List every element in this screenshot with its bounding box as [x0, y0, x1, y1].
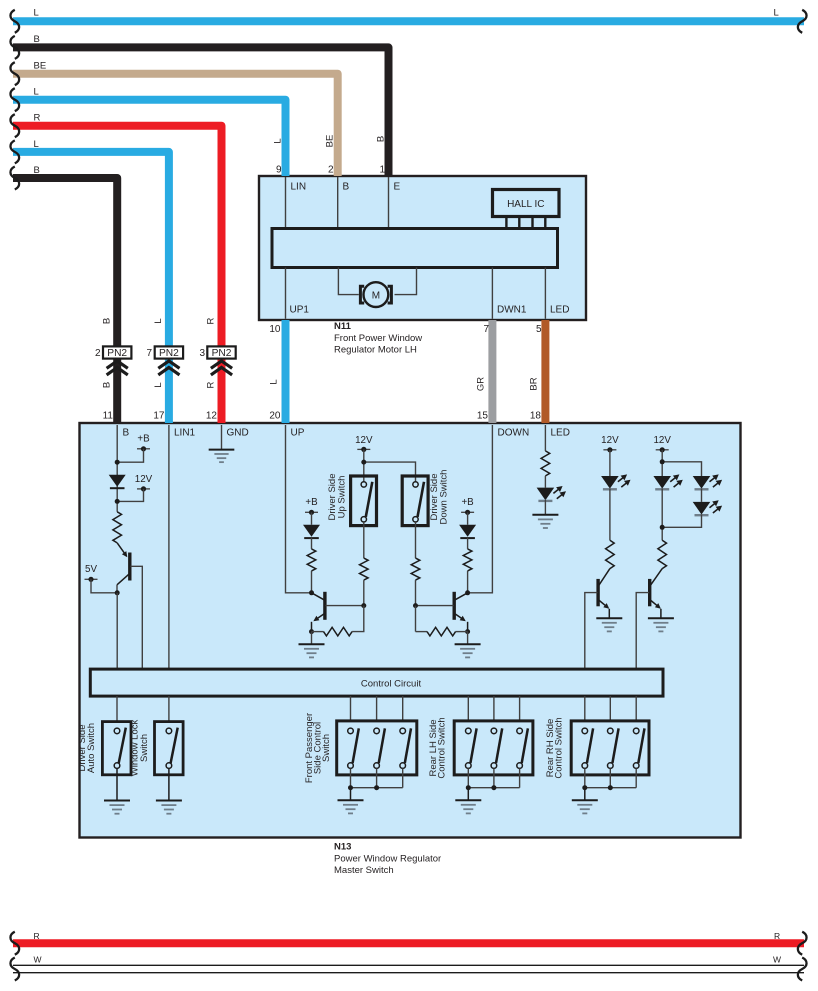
diode D3 [459, 512, 476, 538]
label S6 Rear LH Side Control Switch [428, 717, 448, 778]
node Q2 emitter junction [309, 629, 314, 634]
transistor Q1 [117, 543, 130, 585]
svg-text:12V: 12V [135, 474, 153, 485]
node B pin line [337, 177, 339, 229]
svg-text:B: B [102, 382, 113, 388]
svg-text:UP1: UP1 [290, 305, 310, 316]
pin 12 of N13 [206, 411, 218, 422]
node LIN pin line [285, 177, 287, 229]
svg-text:BR: BR [529, 377, 540, 390]
wire BE to N11 pin 2 B [10, 61, 337, 177]
ground (Q2) [299, 632, 325, 658]
pin 5 of N11 [536, 324, 542, 335]
wire to motor left [338, 268, 358, 295]
wire label BE [325, 135, 336, 148]
wire control to S4 [168, 696, 170, 722]
pin name LIN [291, 182, 307, 193]
ground (S4) [156, 768, 182, 813]
svg-text:L: L [153, 382, 164, 387]
node junction below D1 [115, 499, 120, 504]
wire 5V to Q1 emitter node [91, 579, 117, 593]
pin name B (N13) [123, 428, 130, 439]
svg-text:W: W [773, 955, 781, 965]
resistor R10 [658, 540, 667, 568]
wire label L above PN2-7 [153, 318, 164, 323]
pin 20 of N13 [269, 411, 281, 422]
svg-text:DOWN: DOWN [498, 428, 530, 439]
switch S5 Front Passenger Side Control Switch [337, 721, 417, 775]
ground (LED pin) [532, 500, 558, 528]
svg-text:Control Circuit: Control Circuit [361, 679, 422, 690]
wire control to S3 [116, 696, 118, 722]
resistor R6 [463, 538, 472, 571]
wire LED inside N13 [544, 425, 546, 451]
HALL IC pin stubs [506, 217, 545, 229]
node UP driver junction [309, 590, 314, 595]
svg-text:LED: LED [550, 305, 569, 316]
wire UP1 inside N11 [285, 268, 287, 319]
wire 12V branch [117, 489, 143, 502]
pin name E [394, 182, 401, 193]
svg-text:3: 3 [199, 348, 205, 359]
ground (S5 Front Passenger Side Control Switch) [338, 788, 364, 814]
wire Q1 base to control circuit [131, 566, 143, 669]
svg-text:N13: N13 [334, 842, 351, 853]
resistor R8 [541, 451, 550, 488]
wire L from N11 pin 10 UP1 to N13 pin 20 UP [282, 320, 290, 423]
svg-text:B: B [34, 34, 40, 45]
internal circuit block of N11 [272, 229, 558, 268]
svg-text:+B: +B [137, 434, 150, 445]
wire W (bottom harness) [10, 955, 806, 981]
pin name LED [550, 305, 569, 316]
svg-text:HALL IC: HALL IC [507, 199, 544, 210]
ground (GND pin) [209, 450, 235, 463]
node Q1 emitter junction [115, 590, 120, 595]
svg-text:PN2: PN2 [159, 348, 179, 359]
motor assembly N11 box [259, 176, 586, 320]
pin name DWN1 [497, 305, 527, 316]
node E pin line [388, 177, 390, 229]
wire 12V to switches [364, 449, 416, 481]
HALL IC U1 [493, 190, 560, 217]
svg-text:17: 17 [153, 411, 165, 422]
svg-text:PN2: PN2 [107, 348, 127, 359]
wire control to S6 Rear LH Side Control Switch [468, 696, 519, 721]
wire DWN1 inside N11 [491, 268, 493, 319]
svg-text:LIN: LIN [291, 182, 307, 193]
svg-text:N11: N11 [334, 321, 352, 332]
svg-text:Control Switch: Control Switch [436, 717, 447, 778]
terminal 12V (switch feed) [355, 435, 373, 452]
terminal +B [137, 434, 150, 452]
svg-text:B: B [343, 182, 350, 193]
node junction on B wire [115, 460, 120, 465]
svg-text:15: 15 [477, 411, 489, 422]
resistor R4 (below S2) [411, 522, 420, 606]
svg-text:L: L [269, 379, 280, 384]
switch S2 Driver Side Down Switch [402, 476, 428, 526]
svg-text:20: 20 [269, 411, 281, 422]
wire Q2 base [326, 605, 364, 607]
wire +B branch [117, 449, 143, 462]
connector PN2-7 [155, 346, 183, 375]
pin name UP [291, 428, 305, 439]
svg-text:7: 7 [483, 324, 489, 335]
svg-text:R: R [206, 381, 217, 388]
svg-text:11: 11 [103, 411, 114, 422]
svg-text:LED: LED [551, 428, 570, 439]
diode D2 [303, 512, 320, 538]
svg-text:PN2: PN2 [212, 348, 232, 359]
terminal 12V (illumination 2) [653, 435, 671, 452]
node Q2 base junction [361, 603, 366, 608]
pin 17 of N13 [153, 411, 165, 422]
svg-text:Up Switch: Up Switch [336, 476, 347, 519]
diode D1 [109, 475, 126, 488]
wire B to connector PN2-2 and N13 pin 11 B [10, 165, 117, 423]
wire label GR [476, 377, 487, 391]
svg-text:2: 2 [328, 165, 334, 176]
svg-text:Regulator Motor LH: Regulator Motor LH [334, 344, 417, 355]
svg-text:L: L [153, 318, 164, 323]
wire LIN1 inside N13 [168, 425, 170, 669]
svg-text:Down Switch: Down Switch [439, 470, 450, 525]
wire label B above PN2-2 [102, 318, 113, 324]
svg-text:R: R [774, 931, 780, 941]
svg-text:BE: BE [34, 61, 47, 72]
wire LED inside N11 [544, 268, 546, 319]
connector PN2-3 [207, 346, 235, 375]
wire label L (UP1) [269, 379, 280, 384]
svg-text:GR: GR [476, 377, 487, 391]
label Window Lock Switch [130, 720, 150, 777]
LED D4 [537, 486, 566, 501]
N11 designator label [334, 321, 422, 356]
wire control to S5 Front Passenger Side Control Switch [351, 696, 403, 721]
wire L to connector PN2-7 and N13 pin 17 LIN1 [10, 139, 168, 423]
svg-text:R: R [34, 931, 40, 941]
wire label L below PN2-7 [153, 382, 164, 387]
resistor R2 [307, 538, 316, 571]
svg-text:Master Switch: Master Switch [334, 865, 394, 876]
ground (S3) [104, 768, 130, 813]
svg-text:E: E [394, 182, 401, 193]
pin 10 of N11 [269, 324, 281, 335]
terminal 12V (illumination 1) [601, 435, 619, 452]
wire to motor right [395, 268, 417, 295]
wire GND stub [221, 425, 223, 450]
svg-text:W: W [34, 955, 42, 965]
wire L (top, pin LIN of N11 to body harness both sides) [10, 8, 806, 33]
svg-text:+B: +B [461, 497, 474, 508]
pin name LIN1 [174, 428, 196, 439]
svg-text:B: B [123, 428, 130, 439]
svg-text:L: L [34, 87, 39, 98]
pin 2 of N11 [328, 165, 334, 176]
resistor R5 (Q2 emitter-base) [312, 606, 364, 636]
resistor R3 (below S1) [360, 522, 369, 606]
N13 designator label [334, 842, 441, 877]
wire BR from N11 pin 5 LED to N13 pin 18 LED [541, 320, 549, 423]
node DOWN driver junction [465, 590, 470, 595]
svg-text:12V: 12V [653, 435, 671, 446]
svg-text:Auto Switch: Auto Switch [86, 723, 97, 773]
wire Q5 base to control circuit [636, 593, 649, 670]
svg-text:L: L [774, 8, 779, 19]
svg-text:L: L [273, 138, 284, 143]
resistor R7 (Q3 emitter-base) [416, 606, 468, 636]
pin 3 of PN2 [199, 348, 205, 359]
svg-text:12V: 12V [601, 435, 619, 446]
label Driver Side Up Switch [327, 474, 348, 521]
wire label R below PN2-3 [206, 381, 217, 388]
wire label B [376, 136, 387, 142]
pin name GND [227, 428, 249, 439]
svg-text:DWN1: DWN1 [497, 305, 527, 316]
wire Q4 base to control circuit [585, 593, 598, 670]
svg-text:B: B [376, 136, 387, 142]
wire S6 Rear LH Side Control Switch commons [466, 768, 520, 790]
wire D5 to R9 [609, 488, 611, 540]
svg-text:M: M [372, 290, 380, 301]
label S5 Front Passenger Side Control Switch [304, 713, 332, 783]
wire label B below PN2-2 [102, 382, 113, 388]
terminal 12V (left) [135, 474, 153, 492]
pin name DOWN [498, 428, 530, 439]
control circuit block [90, 669, 663, 696]
label Driver Side Auto Switch [77, 723, 97, 773]
connector PN2-2 [103, 346, 131, 375]
pin 18 of N13 [530, 411, 542, 422]
ground (Q4) [596, 618, 622, 631]
svg-text:R: R [206, 317, 217, 324]
pin name B [343, 182, 350, 193]
wire label L [273, 138, 284, 143]
LED D6 [653, 474, 682, 489]
svg-text:LIN1: LIN1 [174, 428, 196, 439]
motor M1 [360, 282, 391, 307]
transistor Q3 (down driver) [454, 592, 467, 632]
wire R6 to node [467, 571, 469, 593]
wire label BR [529, 377, 540, 390]
wire S7 Rear RH Side Control Switch commons [582, 768, 636, 790]
svg-text:12V: 12V [355, 435, 373, 446]
svg-text:18: 18 [530, 411, 542, 422]
svg-text:9: 9 [276, 165, 282, 176]
svg-text:GND: GND [227, 428, 249, 439]
ground (S7 Rear RH Side Control Switch) [572, 788, 598, 814]
wire R (bottom harness) [10, 931, 806, 955]
wire B inside N13 [116, 425, 118, 512]
node Q3 base junction [413, 603, 418, 608]
ground (Q5) [648, 618, 674, 631]
wire Q3 base [416, 605, 454, 607]
switch S1 Driver Side Up Switch [351, 476, 377, 526]
svg-text:2: 2 [95, 348, 101, 359]
svg-text:Front Power Window: Front Power Window [334, 333, 422, 344]
node Q3 emitter junction [465, 629, 470, 634]
switch S7 Rear RH Side Control Switch [571, 721, 649, 775]
transistor Q4 (LED driver) [598, 569, 610, 618]
wire R to connector PN2-3 and N13 pin 12 GND [10, 113, 221, 423]
LED D7 [693, 474, 722, 489]
svg-text:Switch: Switch [321, 734, 332, 762]
resistor R9 [606, 540, 615, 568]
node 12V branch junction [361, 460, 366, 465]
terminal 5V [85, 564, 98, 582]
wire 12V branch (illumination 2) [662, 450, 701, 476]
svg-text:7: 7 [146, 348, 152, 359]
svg-text:5: 5 [536, 324, 542, 335]
svg-text:1: 1 [379, 165, 385, 176]
ground (Q3) [455, 632, 481, 658]
wire label R above PN2-3 [206, 317, 217, 324]
svg-text:B: B [102, 318, 113, 324]
svg-text:BE: BE [325, 135, 336, 148]
wire B to N11 pin 1 E [10, 34, 388, 176]
pin 15 of N13 [477, 411, 489, 422]
node branch junction top [660, 459, 665, 464]
pin 9 of N11 [276, 165, 282, 176]
label Driver Side Down Switch [429, 470, 450, 525]
switch S4 Window Lock Switch [155, 722, 184, 775]
pin name UP1 [290, 305, 310, 316]
node branch junction bottom [660, 525, 665, 530]
pin 11 of N13 [103, 411, 114, 422]
svg-text:10: 10 [269, 324, 281, 335]
svg-text:+B: +B [305, 497, 318, 508]
pin 7 of N11 [483, 324, 489, 335]
LED D5 [601, 450, 630, 490]
wire UP inside N13 [286, 425, 312, 593]
wire DOWN inside N13 [468, 425, 493, 593]
wire control to S7 Rear RH Side Control Switch [585, 696, 636, 721]
wire S5 Front Passenger Side Control Switch commons [348, 768, 403, 790]
wire GR from N11 pin 7 DWN1 to N13 pin 15 DOWN [488, 320, 496, 423]
wire node to control circuit [116, 593, 118, 669]
svg-text:L: L [34, 8, 39, 19]
svg-text:L: L [34, 139, 39, 150]
wire L to N11 pin 9 LIN [10, 87, 285, 177]
terminal +B (down driver) [461, 497, 474, 515]
pin 1 of N11 [379, 165, 385, 176]
ground (S6 Rear LH Side Control Switch) [455, 788, 481, 814]
svg-text:B: B [34, 165, 40, 176]
transistor Q2 (up driver) [312, 592, 325, 632]
LED D8 [693, 488, 722, 515]
svg-text:12: 12 [206, 411, 218, 422]
svg-text:Switch: Switch [139, 734, 150, 762]
pin 2 of PN2 [95, 348, 101, 359]
svg-text:Control Switch: Control Switch [554, 717, 565, 778]
transistor Q5 (LED driver) [650, 569, 663, 618]
master switch N13 box [80, 423, 741, 838]
svg-text:R: R [34, 113, 41, 124]
pin 7 of PN2 [146, 348, 152, 359]
svg-text:UP: UP [291, 428, 305, 439]
svg-text:5V: 5V [85, 564, 97, 575]
terminal +B (up driver) [305, 497, 318, 515]
switch S3 Driver Side Auto Switch [102, 722, 131, 775]
resistor R1 [113, 512, 122, 543]
wire R2 to node [311, 571, 313, 593]
switch S6 Rear LH Side Control Switch [454, 721, 533, 775]
wire branches rejoin [662, 488, 701, 540]
pin name LED (N13) [551, 428, 570, 439]
svg-text:Power Window Regulator: Power Window Regulator [334, 854, 441, 865]
label S7 Rear RH Side Control Switch [545, 717, 565, 778]
